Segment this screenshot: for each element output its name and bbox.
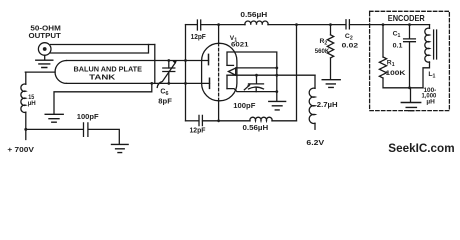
svg-text:100K: 100K <box>386 70 406 77</box>
svg-text:R2: R2 <box>320 38 328 47</box>
svg-text:0.02: 0.02 <box>342 42 359 49</box>
svg-text:100pF: 100pF <box>77 114 100 121</box>
svg-text:12pF: 12pF <box>190 127 207 134</box>
svg-text:+ 700V: + 700V <box>7 145 34 154</box>
svg-text:C6: C6 <box>160 89 168 98</box>
svg-text:6.2V: 6.2V <box>306 138 324 147</box>
svg-text:L1: L1 <box>428 71 435 80</box>
svg-text:ENCODER: ENCODER <box>388 13 425 23</box>
svg-text:µH: µH <box>28 100 36 107</box>
svg-text:C2: C2 <box>345 33 353 42</box>
svg-text:R1: R1 <box>387 59 395 68</box>
svg-text:8pF: 8pF <box>158 98 172 105</box>
svg-text:SeekIC.com: SeekIC.com <box>388 141 454 155</box>
svg-text:0.56µH: 0.56µH <box>243 123 269 132</box>
svg-text:OUTPUT: OUTPUT <box>29 31 62 40</box>
svg-text:C1: C1 <box>393 31 401 40</box>
svg-text:0.1: 0.1 <box>393 42 403 49</box>
svg-text:12pF: 12pF <box>191 34 207 41</box>
svg-text:6021: 6021 <box>231 41 249 48</box>
svg-text:560K: 560K <box>315 48 330 55</box>
svg-text:2.7µH: 2.7µH <box>317 100 338 109</box>
svg-text:TANK: TANK <box>89 72 116 81</box>
svg-text:100pF: 100pF <box>233 103 256 110</box>
svg-text:0.56µH: 0.56µH <box>240 10 267 19</box>
svg-text:µH: µH <box>426 98 435 105</box>
